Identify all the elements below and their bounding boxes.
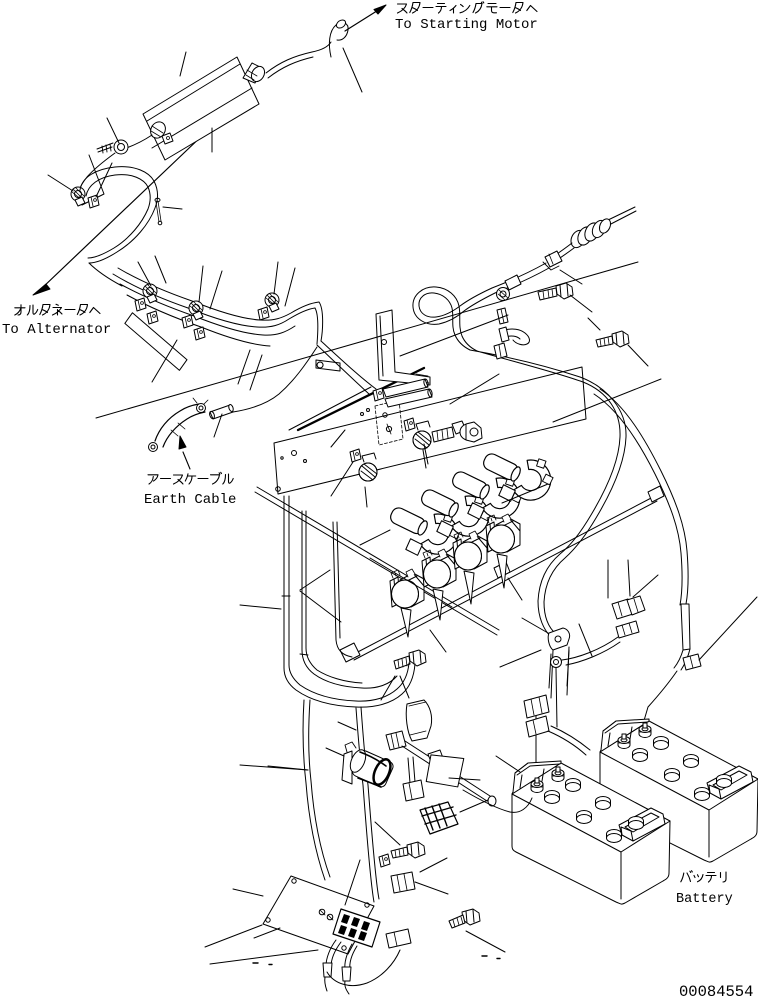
harness tail line (606, 207, 636, 226)
bundle wires (113, 268, 323, 346)
clamp a7 (265, 293, 279, 312)
banjo bolt right of plate (432, 421, 482, 442)
cable from left into battery1 (463, 790, 532, 812)
mounting plate (274, 367, 586, 494)
battery 1 posts (531, 778, 543, 793)
pointer under R3 (464, 571, 474, 604)
cable C (333, 522, 352, 657)
label: Earth Cable (kana) (148, 472, 233, 484)
leaders from relay mounts (331, 430, 426, 507)
ring at cable end (551, 657, 562, 668)
leader from bolt (381, 676, 409, 700)
C-clamp part (548, 628, 569, 688)
leader to bolt B1 (560, 270, 592, 312)
rod end knob (488, 796, 496, 806)
relay R3 (453, 531, 487, 570)
wire from earth junction to plate (233, 347, 317, 412)
wire down to alternator bundle (89, 263, 122, 286)
connector right of terminal block (386, 929, 411, 948)
small clips on plate (361, 388, 385, 416)
wire loop under bullets (327, 950, 400, 986)
hook wire 1 (388, 506, 460, 556)
terminal sleeve (209, 404, 234, 419)
leaders right side (553, 379, 757, 660)
svg-text:To Starting Motor: To Starting Motor (395, 17, 538, 33)
small square plate (426, 754, 464, 787)
battery 2 caps (633, 737, 732, 801)
cable to battery2 post (548, 726, 590, 755)
cable fuse to ring (562, 637, 620, 665)
clamp a5 (182, 315, 193, 328)
elbow fitting (386, 731, 406, 750)
wire descending to bottom plate (303, 700, 330, 880)
small connector above grid box (403, 780, 424, 801)
harness wire from boot (551, 243, 574, 262)
battery 1 caps (545, 779, 644, 843)
left cable 1 end cap (282, 595, 290, 597)
bell connector dark (420, 802, 458, 834)
dashed hidden box on plate (375, 400, 403, 445)
starter relay lower (342, 742, 395, 789)
harness straight run (492, 263, 549, 293)
bottom leader to bullet (210, 950, 318, 964)
leader to pin bolt (163, 207, 182, 209)
cable S to battery2 (594, 389, 688, 605)
leader to bell connector (460, 800, 488, 812)
L-bracket tab (376, 310, 430, 385)
clamp a1 (143, 284, 157, 303)
wire to starter connector (266, 42, 331, 78)
svg-text:To Alternator: To Alternator (2, 322, 111, 338)
leader from sleeve (214, 414, 222, 437)
leader to C-clamp (500, 618, 548, 667)
left cable 2 end cap (300, 654, 308, 655)
leader fan above clamps (138, 256, 295, 390)
starter connector end (329, 18, 348, 57)
plate holes (276, 451, 307, 492)
stub tubes (383, 379, 433, 407)
svg-text:00084554: 00084554 (679, 983, 753, 996)
pin bolt on loop (155, 198, 162, 225)
clamp on U loop (497, 308, 508, 324)
pointer under R4 (497, 554, 507, 588)
boot cone (406, 700, 431, 741)
relay R4 (486, 514, 520, 553)
leader to plate top (180, 52, 186, 76)
clamp a2 (135, 298, 146, 311)
bracket foot left (316, 360, 340, 371)
cushion clamp upper left (71, 187, 85, 206)
leaders below relays (268, 591, 341, 770)
wire to grid connector (408, 757, 415, 783)
relay mount clamp 2 (404, 418, 431, 449)
cable R to battery1 (470, 350, 626, 637)
bracket bar around clamps (123, 312, 190, 370)
rod B coupling (494, 562, 510, 578)
leader to rod B (430, 578, 522, 652)
leader to banjo bolt (450, 374, 499, 404)
leader to plate bottom (211, 128, 213, 152)
leader to left cables (240, 558, 452, 770)
relay R1 (390, 569, 424, 608)
earth cable ring end upper (193, 398, 208, 413)
protective cover plate (143, 57, 259, 160)
vertical wire to battery post 1 (536, 668, 557, 770)
leader to plate lower left (205, 925, 262, 947)
clamp on cable S (683, 654, 701, 670)
bottom dashes (253, 956, 500, 965)
bottom plate (263, 876, 374, 954)
battery 1 (front) (512, 761, 670, 904)
clip near plate (379, 854, 390, 867)
connector above block (391, 872, 415, 893)
earth cable (155, 404, 205, 447)
hook wire 2 (419, 488, 491, 538)
clamp a3 (147, 311, 158, 324)
harness U loop (413, 287, 495, 351)
battery 2 posts (618, 734, 630, 749)
rod B long stick (352, 496, 657, 660)
wire clamp to battery2 (643, 671, 677, 724)
leader to harness (400, 315, 508, 356)
upper loop of cable (80, 167, 158, 263)
leader to cushion clamp (48, 175, 73, 191)
rod coupling (428, 750, 446, 770)
ring terminal with bolt (97, 140, 128, 154)
pointer under R1 (401, 608, 411, 637)
clamp mid plate left (148, 119, 173, 144)
battery 2 (rear) (600, 719, 758, 862)
cushion clamp on run (497, 288, 510, 301)
svg-text:Battery: Battery (676, 892, 733, 907)
fuse link box (612, 596, 645, 619)
rod B end fitting (340, 643, 360, 662)
leaders around relays (300, 444, 548, 590)
label: To Alternator (kana) (15, 304, 100, 315)
leader from starter connector (343, 48, 362, 92)
bolt in dashed box (383, 413, 392, 434)
svg-text:Earth Cable: Earth Cable (144, 492, 236, 508)
leader into battery area (449, 756, 520, 780)
clamp on harness (543, 251, 562, 270)
arrow to alternator (33, 131, 207, 295)
wire from ring down to clamps (79, 153, 115, 191)
terminal clamp below fuse (616, 621, 639, 638)
second wire to terminal block (356, 707, 379, 902)
hook wire 3 (450, 470, 522, 520)
terminal block (333, 909, 380, 947)
label: To Starting Motor (kana) (398, 2, 538, 13)
lower U tube (505, 329, 529, 345)
leader to starter relay (326, 722, 356, 756)
arrow to starting motor (345, 5, 386, 31)
leader to ring bolt (107, 118, 119, 143)
wire from clamp to ring bolt (117, 135, 152, 151)
bolt lower right (449, 909, 480, 928)
bolt B2 (596, 331, 629, 347)
rod B top fitting (648, 486, 664, 502)
bent leader below bolt (82, 155, 104, 205)
clamp a8 (258, 307, 269, 320)
leader to clip (96, 163, 112, 197)
clamp a4 (189, 301, 203, 320)
rod to battery (402, 741, 490, 801)
relay mount clamp 1 (350, 449, 377, 481)
harness wires over plate (317, 341, 376, 394)
rod A (255, 487, 499, 635)
pointer under R2 (433, 589, 443, 620)
relay R2 (422, 549, 456, 588)
leaders above battery (608, 560, 630, 598)
leader to bolt B2 (588, 318, 648, 366)
clamp on cable R top (494, 343, 507, 359)
clamp a6 (194, 327, 205, 340)
hook wire 4 (481, 452, 553, 502)
left cable 2 (302, 511, 397, 688)
leaders bottom plate (233, 822, 505, 952)
coupling on run (505, 275, 521, 290)
leader to fuse link (633, 575, 658, 597)
bolt below relays (394, 650, 426, 669)
connector block on wires (524, 695, 549, 718)
label: Battery (kana) (681, 871, 726, 882)
long leader crossing image (96, 262, 638, 418)
small clip next to it (88, 195, 99, 208)
bolt B1 (538, 283, 573, 300)
arrow to earth cable (179, 436, 190, 469)
bolt near plate (391, 842, 425, 858)
clamp on plate top right (243, 63, 267, 84)
leader to connector (415, 882, 448, 894)
terminal clamp on wires (526, 716, 549, 737)
left cable 1 (284, 496, 415, 707)
wires with bullet terminals (323, 940, 357, 994)
earth cable ring end lower (149, 443, 158, 452)
corrugated boot (568, 217, 612, 250)
